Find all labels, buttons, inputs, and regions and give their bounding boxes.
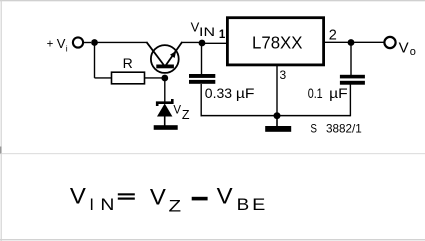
label Vo [399,40,416,59]
svg-text:V: V [70,184,86,209]
svg-text:I: I [89,196,94,214]
svg-text:1: 1 [219,29,226,41]
wire C2 down to rail [349,85,351,117]
svg-text:+: + [47,38,54,50]
svg-text:N: N [100,196,114,214]
wire emitter to VIN node [182,41,202,43]
capacitor C2 0.1uF [340,75,365,85]
wire VIN node to regulator pin 1 [202,42,226,44]
resistor R [112,72,145,84]
node A (input junction) [91,39,98,46]
wire resistor to base node [145,77,165,79]
svg-text:Z: Z [169,196,182,215]
wire output node down to C2 [350,43,352,76]
svg-text:µF: µF [329,85,348,101]
transistor Q1 [146,42,182,73]
node rail junction [274,112,281,119]
svg-text:L78XX: L78XX [252,32,303,52]
svg-text:0.33: 0.33 [205,85,232,101]
ground rail [201,115,351,117]
wire output node to Vo terminal [351,41,384,43]
zener diode VZ [157,99,172,126]
svg-text:µF: µF [236,85,255,101]
wire base node down to zener [164,78,166,102]
wire C1 down to rail [200,84,202,116]
svg-text:V: V [173,105,181,117]
svg-text:3882/1: 3882/1 [326,122,362,136]
svg-text:V: V [217,184,233,209]
svg-text:B: B [237,196,250,214]
label VIN [191,20,215,39]
svg-text:V: V [399,40,409,57]
svg-text:o: o [410,46,416,58]
svg-text:Z: Z [182,108,190,122]
regulator U1 L78XX [227,18,323,65]
svg-text:E: E [252,196,265,214]
wire to resistor [95,77,112,79]
formula VIN = VZ - VBE [70,184,266,216]
svg-text:V: V [57,36,66,51]
wire pin 2 to output node [325,41,351,43]
wire input top (node A to transistor collector) [95,41,147,43]
node output [348,39,355,46]
wire pin 3 down to rail [276,66,278,116]
svg-text:2: 2 [329,28,337,44]
svg-text:3: 3 [280,68,287,82]
svg-text:IN: IN [199,27,215,39]
label VZ [173,105,190,123]
svg-text:0.1: 0.1 [308,85,323,101]
svg-text:i: i [66,43,68,53]
svg-text:S: S [310,122,317,136]
ground (pin 3) [265,116,291,132]
ground (zener) [154,125,178,130]
svg-text:V: V [150,184,166,209]
node base (dot below transistor) [161,75,168,82]
capacitor C1 0.33uF [189,74,215,84]
label +Vi [47,36,68,54]
node VIN [199,40,206,47]
svg-text:R: R [123,55,133,71]
terminal Vo [384,37,395,48]
terminal +Vi [73,37,91,47]
wire node A down [94,43,96,78]
wire VIN node down to C1 [201,43,203,75]
